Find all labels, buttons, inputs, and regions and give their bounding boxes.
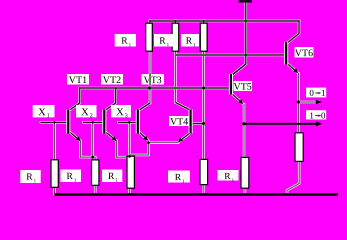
svg-text:0: 0 — [309, 88, 314, 98]
svg-text:R: R — [186, 37, 193, 47]
svg-text:VT2: VT2 — [103, 75, 121, 86]
svg-text:X: X — [116, 107, 124, 118]
svg-text:R: R — [121, 37, 128, 47]
svg-text:1: 1 — [47, 113, 50, 119]
svg-text:VT4: VT4 — [170, 117, 188, 128]
svg-text:R: R — [26, 173, 33, 183]
svg-text:VT1: VT1 — [69, 75, 87, 86]
svg-text:R: R — [67, 172, 74, 182]
svg-text:3: 3 — [125, 113, 128, 119]
svg-text:VT3: VT3 — [143, 75, 161, 86]
svg-text:2: 2 — [90, 113, 93, 119]
svg-text:R: R — [108, 172, 115, 182]
svg-text:R: R — [159, 37, 166, 47]
svg-text:1: 1 — [321, 88, 326, 98]
svg-text:1: 1 — [309, 110, 314, 120]
svg-text:0: 0 — [321, 110, 326, 120]
svg-text:VT6: VT6 — [295, 48, 313, 59]
svg-text:R: R — [224, 172, 231, 182]
svg-text:VT5: VT5 — [233, 82, 251, 93]
svg-text:X: X — [81, 107, 89, 118]
svg-text:R: R — [175, 173, 182, 183]
svg-text:X: X — [38, 107, 46, 118]
